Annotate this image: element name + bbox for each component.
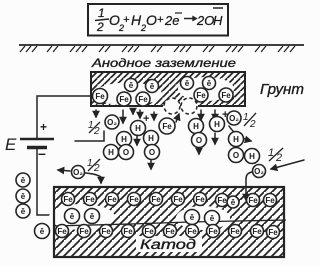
O2 molecule left	[105, 115, 119, 129]
anode border	[91, 72, 245, 106]
svg-text:Fe: Fe	[95, 92, 105, 101]
svg-text:O: O	[233, 151, 239, 160]
svg-text:Fe: Fe	[162, 122, 172, 131]
svg-text:+: +	[123, 14, 130, 26]
arrows in left cluster	[137, 135, 151, 169]
svg-text:2: 2	[249, 119, 256, 130]
svg-text:Fe: Fe	[129, 195, 139, 204]
svg-text:–: –	[38, 145, 46, 161]
svg-text:Fe: Fe	[196, 91, 206, 100]
arrows below anode right	[201, 110, 215, 120]
svg-text:ē: ē	[90, 212, 95, 221]
H+ ion left	[131, 121, 146, 136]
svg-text:H: H	[135, 124, 141, 133]
svg-text:2: 2	[93, 126, 100, 137]
ground surface line	[19, 44, 304, 46]
svg-text:O₂: O₂	[229, 114, 239, 123]
svg-text:O₂: O₂	[73, 168, 83, 177]
svg-text:Fe: Fe	[173, 195, 183, 204]
anode white pockets	[94, 77, 234, 106]
cathode white pockets	[49, 204, 230, 252]
svg-text:O₂: O₂	[107, 118, 117, 127]
svg-text:Катод: Катод	[140, 237, 197, 252]
svg-text:Fe: Fe	[119, 95, 129, 104]
svg-text:ē: ē	[70, 212, 75, 221]
svg-text:Fe: Fe	[221, 91, 231, 100]
dissolving Fe ions (dashed circles)	[164, 98, 197, 114]
cathode Fe atoms bottom row	[56, 225, 280, 239]
svg-text:H: H	[249, 152, 255, 161]
svg-text:Fe: Fe	[195, 195, 205, 204]
svg-text:Грунт: Грунт	[260, 82, 304, 98]
anode Fe atoms right	[194, 88, 233, 102]
svg-text:Fe: Fe	[230, 227, 240, 236]
wire battery to anode	[37, 96, 91, 139]
svg-text:Fe: Fe	[144, 227, 154, 236]
svg-text:Fe: Fe	[151, 195, 161, 204]
svg-text:H: H	[233, 135, 239, 144]
svg-text:2: 2	[275, 152, 282, 164]
svg-text:2O: 2O	[196, 13, 214, 28]
cathode body (hatched)	[54, 187, 284, 257]
O2 swoosh	[229, 126, 251, 141]
svg-text:Fe: Fe	[268, 228, 278, 237]
svg-text:ē: ē	[129, 81, 134, 90]
svg-text:Fe: Fe	[63, 195, 73, 204]
svg-text:H: H	[193, 122, 199, 131]
svg-text:2e: 2e	[164, 13, 179, 28]
svg-text:2: 2	[93, 163, 100, 174]
svg-text:E: E	[5, 135, 17, 154]
svg-text:Fe: Fe	[101, 227, 111, 236]
svg-text:H: H	[213, 13, 223, 28]
anode body (hatched)	[91, 72, 245, 106]
svg-text:H: H	[148, 134, 154, 143]
svg-text:H: H	[214, 120, 220, 129]
equation box	[88, 4, 228, 36]
1/2 label left anode	[88, 120, 100, 137]
H+ ion right	[210, 117, 225, 132]
O2 to cathode left	[58, 166, 101, 184]
svg-text:ē: ē	[185, 79, 190, 88]
svg-text:O: O	[196, 136, 202, 145]
svg-text:ē: ē	[21, 176, 26, 185]
svg-text:ē: ē	[231, 198, 236, 207]
svg-text:+: +	[157, 14, 164, 26]
wire battery to cathode	[37, 148, 60, 216]
svg-text:O: O	[123, 148, 129, 157]
arrow Fe to vacancy	[176, 114, 179, 122]
svg-text:Fe: Fe	[57, 227, 67, 236]
cathode border	[54, 187, 284, 257]
svg-text:Fe: Fe	[138, 95, 148, 104]
cathode boundary line	[54, 220, 286, 226]
svg-text:Fe: Fe	[265, 196, 275, 205]
svg-text:ē: ē	[207, 79, 212, 88]
svg-text:O₂: O₂	[254, 167, 264, 176]
cathode electrons left pocket	[65, 209, 100, 224]
equation 1/2 O2 + H2O + 2e -> 2OH	[95, 6, 223, 34]
svg-text:Fe: Fe	[208, 227, 218, 236]
svg-text:H: H	[108, 148, 114, 157]
svg-text:Fe: Fe	[248, 196, 258, 205]
Fe ion leaving anode	[159, 118, 175, 134]
svg-text:Fe: Fe	[217, 196, 227, 205]
svg-text:H: H	[121, 135, 127, 144]
svg-text:O: O	[146, 12, 157, 28]
water pair left2	[144, 131, 160, 160]
water pair right1	[189, 119, 207, 148]
svg-text:Fe: Fe	[252, 227, 262, 236]
svg-text:ē: ē	[210, 214, 215, 223]
water cluster right	[229, 132, 260, 164]
svg-text:Fe: Fe	[107, 195, 117, 204]
svg-text:Fe: Fe	[187, 227, 197, 236]
battery cell	[20, 120, 54, 161]
svg-text:+: +	[143, 113, 149, 125]
O2 molecule right	[227, 111, 241, 125]
svg-text:Fe: Fe	[165, 227, 175, 236]
svg-text:Fe: Fe	[79, 227, 89, 236]
1/2 label right anode	[243, 112, 256, 130]
svg-text:Анодное заземление: Анодное заземление	[91, 56, 237, 70]
O2 to cathode right	[246, 160, 304, 187]
1/2 label cathode right	[268, 147, 283, 164]
svg-text:ē: ē	[40, 227, 45, 236]
svg-text:Fe: Fe	[85, 195, 95, 204]
svg-text:+: +	[40, 120, 47, 134]
svg-text:1: 1	[98, 6, 105, 20]
anode electrons left	[125, 79, 159, 93]
arrow O2 into cathode (overlay)	[245, 188, 247, 200]
svg-text:ē: ē	[21, 207, 26, 216]
svg-text:ē: ē	[21, 192, 26, 201]
1/2 label cathode left	[87, 158, 100, 174]
water molecule cluster left	[104, 132, 134, 160]
svg-text:ē: ē	[150, 82, 155, 91]
O2 path bracket	[75, 131, 104, 141]
ground surface hatching	[20, 46, 295, 52]
cathode Fe atoms top row	[62, 193, 277, 209]
anode Fe atoms left	[93, 89, 151, 107]
cathode electrons right pocket	[185, 210, 220, 226]
svg-text:2: 2	[96, 20, 104, 34]
svg-text:ē: ē	[190, 213, 195, 222]
svg-text:O: O	[149, 148, 155, 157]
electrons in wire	[16, 173, 50, 239]
svg-text:Fe: Fe	[123, 227, 133, 236]
anode electrons right	[181, 77, 216, 90]
arrows below anode left	[96, 110, 154, 123]
